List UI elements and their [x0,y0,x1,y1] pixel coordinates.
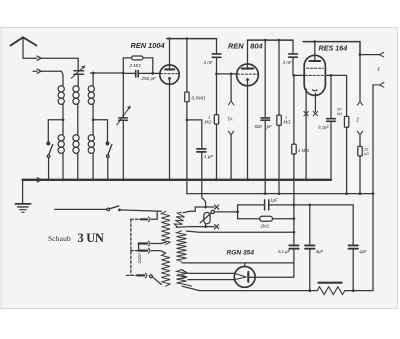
antenna [11,37,37,45]
svg-text:kΩ: kΩ [337,111,342,116]
svg-text:0,5MΩ: 0,5MΩ [192,96,206,101]
wire R5 to bus [293,154,295,180]
capacitor C12 4uF [349,245,358,248]
resistor R5 1MOhm [292,144,297,154]
wire S1 to bus [48,158,50,180]
resistor R3 3MOhm [214,115,218,125]
wire R3 to bus [216,124,218,180]
wire C1 to coil L2 [77,75,79,86]
switch S2 [106,142,112,157]
wire screen grid right [325,75,346,116]
capacitor C4 3nF [212,54,221,57]
svg-text:3 nF: 3 nF [283,60,293,65]
wire grid line to varcap C2 [91,73,124,117]
mains cord dashed [127,219,139,275]
mains switch S3 [107,206,121,211]
svg-text:1μF: 1μF [270,197,278,202]
svg-text:3 UN: 3 UN [78,231,104,245]
svg-text:1: 1 [356,117,359,123]
x mark heater top [215,205,219,209]
capacitor C5 1uF [197,149,206,152]
svg-text:1 μF: 1 μF [204,154,214,159]
RC bracket [237,205,239,219]
wire C7 to grid node [292,58,294,76]
capacitor C10 0.1uF [289,245,298,248]
svg-text:0,1μF: 0,1μF [318,124,329,129]
transformer secondary winding c [177,270,192,286]
wire TA branch [230,74,232,101]
wire heater pin 1 [305,89,307,180]
wire C5 down jog [202,153,206,207]
resistor R8 1kOhm [260,216,273,221]
wire grid V2 [217,73,238,75]
tube V2 REN804 [237,64,259,86]
B+ rail [187,193,373,195]
tube V3 RES164 [304,55,325,95]
capacitor C7 3nF [289,54,298,57]
svg-text:pF: pF [266,124,272,129]
capacitor C9 1uF [265,200,269,210]
capacitor C6 500pF [261,118,270,120]
wire rail1 to cap 3nF [216,39,218,54]
wire winding a bottom [176,226,214,229]
svg-text:1: 1 [285,114,287,119]
wire anode V2 [247,40,249,68]
wire rail2 to C7 [292,40,294,53]
wire right side down [372,85,374,291]
wire anode line RGN [182,263,294,267]
svg-text:Schaub: Schaub [48,234,71,243]
wire HV winding top line [186,231,294,232]
top rail 2 [248,39,294,41]
bus plug connector [37,178,41,182]
top rail 1 [167,38,217,40]
coil L5 [73,135,79,154]
antenna plug connector [37,56,41,60]
wire C12 down [352,250,354,291]
wire RGN right [249,264,294,278]
wire L3 mid [92,104,94,134]
wire C11 [309,205,311,291]
wire C9 right [270,205,354,244]
resistor R1 2MOhm loop [123,58,153,74]
wire cathode V1 to bus [169,80,171,180]
connector fork L2 [373,83,384,88]
wire switch to transformer primary [119,210,161,211]
tube V4 RGN354 [234,267,255,288]
mains tap socket 1 [131,211,157,221]
wire winding a top [183,207,214,213]
capacitor C3 250pF [136,71,139,77]
svg-text:RGN 354: RGN 354 [227,250,255,257]
wire rail1 to R2 [186,39,188,92]
wire anode V3 [314,42,316,61]
svg-text:0,1 μF: 0,1 μF [278,249,291,254]
wire output jack top [360,54,380,56]
connector (earth aerial plug) [33,69,41,73]
wire TA to bus [230,135,232,180]
wire connector to coil L1 [41,71,63,86]
resistor R1 box [132,56,144,60]
wire C3 to tube grid [139,72,160,74]
mains link plug pair [139,241,166,253]
svg-text:1kΩ: 1kΩ [261,224,270,229]
wire anode V1 [169,39,171,70]
svg-text:2 MΩ: 2 MΩ [129,63,142,68]
wire jack to R7 [359,135,361,147]
top rail 3 [303,42,360,55]
wire antenna to varcap C1 [41,58,78,70]
rheostat [200,210,214,226]
wire L4 to bus [62,153,64,179]
wire jack stem top [359,55,361,102]
wire heater RGN 2 [188,279,235,281]
wire C8 to bus corner [330,122,332,180]
svg-text:RES 164: RES 164 [319,44,348,53]
wire grid node to R5 [293,75,295,144]
bottom output rail [200,290,373,292]
wire R7 to B+ rail [359,156,361,194]
coil L4 [58,135,64,154]
wire L5 to bus [77,153,79,179]
wire R2 branch right [187,120,202,148]
svg-text:4μF: 4μF [316,249,324,254]
tube V1 REN1004 [160,65,179,84]
svg-text:REN 1004: REN 1004 [131,41,165,50]
jack fork up [357,131,362,135]
variable capacitor C2 [117,106,130,125]
transformer secondary winding a [174,211,186,228]
wire grid node V3 [294,74,305,76]
wire C2 to bus [122,121,124,180]
wire bus to ground [22,180,24,204]
heater pin x mark 2 [313,111,317,115]
svg-text:220V: 220V [137,252,142,264]
svg-text:804: 804 [250,41,262,50]
capacitor C8 0.1uF [327,119,336,122]
coil L1 [58,86,64,105]
connector fork L1 [380,52,384,57]
resistor R2 0.5MOhm [185,92,189,102]
wire R6 to B+ rail [346,127,348,193]
wire cathode V2 to bus [247,81,249,180]
svg-text:500: 500 [255,124,263,129]
svg-text:1 MΩ: 1 MΩ [298,148,310,153]
speaker zigzag [317,287,345,295]
svg-text:MΩ: MΩ [284,120,292,125]
heater pin x mark 1 [304,111,308,115]
svg-text:4μF: 4μF [359,249,367,254]
speaker choke bar [319,282,342,284]
resistor R6 50kOhm [344,116,348,127]
wire L2 mid [77,104,79,134]
switch S1 [47,142,53,157]
heater arrow [182,275,187,278]
wire to cap C9 [238,204,264,206]
wire antenna down [23,38,37,58]
wire rheostat slider to RC [214,211,237,213]
mains tap socket 3 [137,273,161,284]
connector TA bottom [228,131,233,135]
wire link left [48,120,63,143]
variable capacitor C1 [71,66,85,79]
transformer secondary winding b [177,231,187,262]
svg-text:kΩ: kΩ [364,151,369,156]
wire R8 right [273,218,294,220]
coil L3 [88,86,94,105]
wire to resistor R8 [238,218,260,220]
wire L3 top [92,73,94,86]
ground [15,204,30,212]
coil L6 [88,135,94,154]
wire screen to C8 [330,75,332,118]
capacitor C11 4uF [305,245,314,248]
main ground bus [23,179,331,181]
wire R4 to B+ rail [278,125,280,193]
wire rail2 to C6 [264,40,266,117]
connector TA top [228,101,233,105]
wire grid to cap C3 [123,72,135,74]
wire R2 down [186,102,188,194]
svg-text:250 pF: 250 pF [141,76,157,81]
wire C4 to R3 [216,58,218,115]
wire heater pin 2 [314,94,316,112]
svg-text:MΩ: MΩ [205,120,213,125]
wire L1 mid [62,104,64,134]
mains switch wire [55,208,107,210]
transformer primary winding upper [161,211,170,244]
svg-text:TA: TA [227,117,233,122]
wire C6 to B+ rail [264,121,266,194]
wire L6 to bus [92,153,94,179]
resistor R4 1MOhm [277,115,282,125]
wire chassis vertical [293,180,295,244]
coil L2 [73,86,79,105]
wire rail2 to R4 [278,40,280,115]
wire C10 down [293,250,295,264]
wire S2 to bus [107,158,109,180]
svg-text:3 nF: 3 nF [204,60,214,65]
svg-text:REN: REN [228,41,244,50]
x mark heater bottom [215,225,219,229]
wire link right [93,120,107,143]
transformer primary winding lower [161,253,170,286]
wire heater RGN 1 [182,270,235,274]
jack fork down [357,101,362,105]
wire winding c bottom to rail [182,286,200,290]
resistor R7 10kOhm [358,146,362,156]
